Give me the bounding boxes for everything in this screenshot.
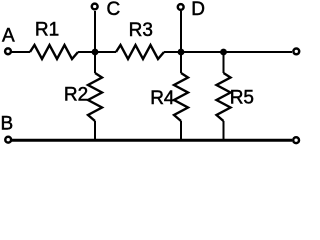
- wire node D-R4 to R4 top: [180, 52, 182, 73]
- svg-text:C: C: [107, 0, 121, 20]
- svg-text:R4: R4: [150, 88, 175, 109]
- svg-text:R5: R5: [230, 88, 254, 109]
- resistor R5: [217, 73, 231, 121]
- svg-text:B: B: [1, 113, 14, 134]
- terminal B: [5, 137, 11, 143]
- terminal C: [92, 4, 98, 10]
- wire R4 bottom to bottom rail: [180, 121, 182, 140]
- svg-text:R2: R2: [64, 85, 88, 106]
- terminal top right: [293, 49, 299, 55]
- wire node C-R2 to R2 top: [94, 52, 96, 73]
- wire R5 bottom to bottom rail: [223, 121, 225, 140]
- wire top rail segment R1 to R3: [78, 51, 116, 53]
- wire bottom rail B to right terminal: [11, 139, 292, 142]
- junction node C/R2 on top rail: [92, 49, 99, 56]
- terminal bottom right: [293, 137, 299, 143]
- svg-text:R1: R1: [35, 20, 59, 41]
- svg-text:A: A: [2, 26, 15, 47]
- wire D stub: [180, 11, 182, 52]
- wire R2 bottom to bottom rail: [94, 121, 96, 140]
- resistor R3: [116, 45, 164, 59]
- wire top rail segment A to R1: [11, 51, 30, 53]
- resistor R4: [174, 73, 188, 121]
- terminal D: [178, 4, 184, 10]
- wire C stub: [94, 11, 96, 52]
- svg-text:R3: R3: [129, 20, 153, 41]
- junction node D/R4 on top rail: [178, 49, 185, 56]
- wire R5 top stub: [223, 52, 225, 73]
- resistor R1: [30, 45, 78, 59]
- wire top rail segment R3 to right terminal: [164, 51, 292, 53]
- junction node R5 on top rail: [220, 49, 227, 56]
- svg-text:D: D: [191, 0, 205, 20]
- resistor R2: [88, 73, 102, 121]
- terminal A: [5, 48, 11, 54]
